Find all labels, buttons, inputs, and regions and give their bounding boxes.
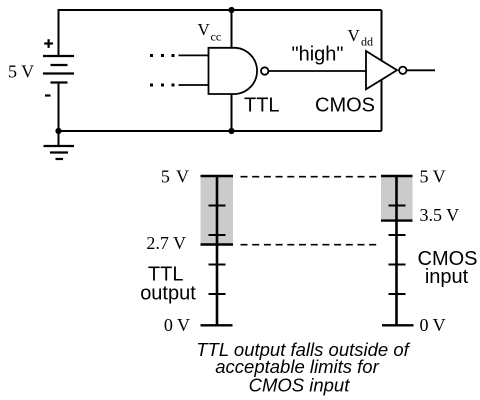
- TTL output scale axis: [216, 175, 219, 327]
- ground symbol: [44, 131, 75, 159]
- svg-text:V: V: [348, 26, 361, 45]
- dashed line 2.7V level: [241, 244, 379, 246]
- battery minus sign: [45, 94, 51, 96]
- CMOS scale minor ticks: [389, 206, 406, 295]
- svg-text:"high": "high": [292, 44, 344, 66]
- svg-text:V: V: [198, 20, 211, 39]
- CMOS scale wide ticks 5V 3.5V 0V: [381, 176, 414, 325]
- TTL output acceptable band (grey): [201, 175, 234, 245]
- dashed line 5V level: [241, 176, 378, 178]
- wire Vcc rail through TTL gate: [231, 10, 233, 131]
- label Vdd: [348, 26, 374, 49]
- svg-text:0 V: 0 V: [420, 315, 446, 335]
- wire U1 input 2: [179, 84, 209, 86]
- battery plus sign: [44, 39, 53, 48]
- svg-text:CMOS: CMOS: [315, 95, 375, 117]
- wire U1 output to U2 input: [268, 70, 366, 72]
- CMOS input scale axis: [395, 175, 398, 327]
- TTL scale wide ticks 5V 2.7V 0V: [201, 176, 234, 325]
- buffer CMOS U2 triangle: [366, 51, 397, 89]
- gate U1 output bubble: [261, 67, 268, 74]
- wire U2 output: [407, 69, 436, 71]
- wire right rail: [381, 10, 383, 131]
- gate TTL NAND U1: [209, 48, 258, 94]
- svg-text:input: input: [425, 266, 469, 288]
- wire top rail: [59, 10, 382, 56]
- wire battery negative lead: [58, 83, 60, 132]
- svg-text:5 V: 5 V: [8, 62, 34, 82]
- ellipsis dots input 2: [150, 84, 175, 87]
- node junction dot TTL ground: [228, 128, 234, 134]
- battery V1 5V: [43, 56, 74, 83]
- svg-text:2.7 V: 2.7 V: [146, 233, 186, 253]
- node junction dot top rail: [228, 7, 234, 13]
- buffer U2 output bubble: [399, 67, 406, 74]
- label TTL output: [140, 263, 196, 304]
- node junction dot battery bottom: [55, 128, 61, 134]
- svg-text:cc: cc: [211, 30, 222, 44]
- svg-text:output: output: [140, 282, 196, 304]
- label Vcc: [198, 20, 222, 44]
- svg-text:3.5 V: 3.5 V: [420, 205, 460, 225]
- svg-text:5 V: 5 V: [161, 167, 190, 187]
- svg-text:5 V: 5 V: [420, 167, 446, 187]
- svg-text:dd: dd: [361, 35, 373, 49]
- svg-text:CMOS input: CMOS input: [249, 375, 351, 396]
- TTL scale minor ticks: [209, 206, 226, 295]
- CMOS input acceptable band (grey): [381, 175, 413, 221]
- ellipsis dots input 1: [150, 54, 175, 57]
- svg-text:0 V: 0 V: [164, 315, 190, 335]
- label CMOS input: [418, 248, 478, 288]
- svg-text:TTL: TTL: [244, 95, 280, 117]
- wire U1 input 1: [179, 54, 209, 56]
- wire bottom rail: [59, 130, 382, 132]
